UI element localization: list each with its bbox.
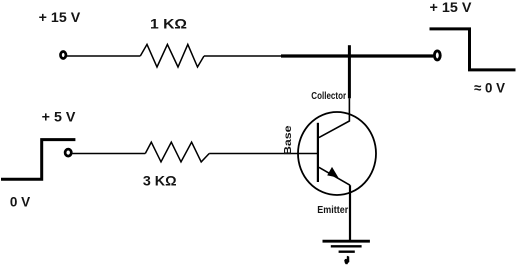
terminal T2 (top right output terminal) bbox=[434, 51, 440, 60]
wire R2 to base bbox=[209, 153, 318, 155]
wire emitter to ground bbox=[349, 185, 351, 241]
transistor Q1 collector lead bbox=[319, 98, 350, 137]
resistor R1 1 KΩ bbox=[140, 44, 204, 67]
wire T3 to R2 bbox=[73, 153, 146, 155]
waveform input step (rising edge) bbox=[1, 140, 75, 180]
node input label 0 V bbox=[10, 194, 31, 210]
wire R1 to thick segment bbox=[204, 55, 281, 57]
ground bar 2 bbox=[331, 245, 362, 247]
cursor artifact below ground bbox=[344, 256, 349, 264]
svg-text:1 KΩ: 1 KΩ bbox=[150, 16, 187, 32]
wire T1 to R1 bbox=[67, 55, 141, 57]
wire thick segment to output terminal bbox=[281, 54, 433, 57]
transistor Q1 base bar bbox=[317, 123, 319, 182]
transistor Q1 body circle bbox=[298, 112, 376, 195]
resistor R2 3 KΩ bbox=[145, 142, 209, 162]
svg-text:≈ 0 V: ≈ 0 V bbox=[474, 80, 506, 96]
svg-text:3 KΩ: 3 KΩ bbox=[143, 173, 177, 189]
svg-text:Emitter: Emitter bbox=[317, 204, 348, 216]
label Base (rotated) bbox=[282, 125, 294, 155]
waveform output step (falling edge) bbox=[430, 29, 516, 70]
value label 1 KΩ bbox=[150, 16, 187, 32]
svg-text:0 V: 0 V bbox=[10, 194, 31, 210]
svg-text:+ 15 V: + 15 V bbox=[430, 0, 473, 15]
value label 3 KΩ bbox=[143, 173, 177, 189]
junction collector tick on top wire bbox=[348, 45, 351, 98]
svg-text:+ 5 V: + 5 V bbox=[42, 108, 76, 124]
ground bar 1 bbox=[323, 240, 370, 243]
label Emitter bbox=[317, 204, 348, 216]
transistor Q1 emitter lead bbox=[319, 167, 350, 185]
svg-text:Collector: Collector bbox=[311, 90, 346, 102]
node VCC label +15V (top left) bbox=[39, 9, 81, 25]
ground bar 3 bbox=[339, 250, 355, 252]
terminal T3 (bottom left input terminal) bbox=[65, 149, 71, 156]
node input label +5V bbox=[42, 108, 76, 124]
node output label ≈ 0 V bbox=[474, 80, 506, 96]
svg-text:Base: Base bbox=[282, 125, 294, 155]
transistor Q1 emitter arrow bbox=[327, 167, 338, 178]
terminal T1 (top left input terminal) bbox=[61, 52, 66, 59]
label Collector bbox=[311, 90, 346, 102]
node output label +15V (top right) bbox=[430, 0, 473, 15]
svg-text:+ 15 V: + 15 V bbox=[39, 9, 81, 25]
